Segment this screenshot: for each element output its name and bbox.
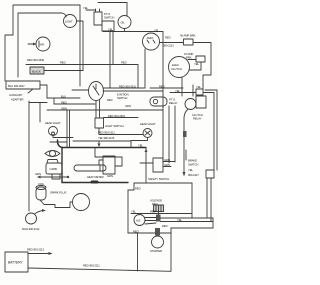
wire battery ground long (28, 268, 171, 271)
wire stub switch left (72, 89, 88, 91)
wire red 900-2530 run (26, 64, 113, 66)
wire reg stem (158, 212, 160, 216)
svg-text:RED 900-2611: RED 900-2611 (119, 85, 136, 89)
svg-text:900-2117: 900-2117 (188, 173, 199, 177)
svg-text:RED: RED (107, 98, 113, 102)
wire alt stub top (145, 217, 156, 219)
magneto arrow (35, 211, 44, 214)
brake arrow head (183, 172, 186, 177)
ammeter circle (143, 33, 160, 50)
head light left filament (52, 132, 55, 135)
reg blob (157, 215, 161, 220)
wire relay top (192, 85, 194, 96)
light switch box (95, 118, 104, 128)
svg-text:ALT.: ALT. (136, 219, 141, 223)
svg-text:RED: RED (159, 85, 165, 89)
wire from top loop down (79, 5, 81, 86)
wire safety drop (145, 148, 147, 184)
magneto circle (26, 213, 37, 224)
ignition switch body (89, 82, 104, 101)
wire light switch out (104, 117, 139, 119)
wire yel 2115 run (73, 141, 131, 148)
safety switch box (153, 158, 163, 172)
svg-text:YEL: YEL (194, 62, 199, 66)
svg-text:RED: RED (135, 187, 141, 191)
head light right stem (131, 138, 148, 141)
svg-text:RED 900-2111: RED 900-2111 (98, 131, 115, 135)
svg-text:40 AMP. BRK.: 40 AMP. BRK. (180, 34, 196, 38)
svg-text:BLACK: BLACK (32, 70, 41, 74)
right connector box (206, 170, 214, 178)
wire bus riser a (206, 178, 208, 218)
head light right filament (145, 131, 150, 135)
inner box right rail (191, 183, 193, 218)
svg-text:SPARK PLUG: SPARK PLUG (50, 191, 66, 195)
svg-text:RED: RED (133, 230, 139, 234)
wire left box corner (5, 35, 13, 81)
coil body (36, 187, 46, 200)
svg-text:YEL: YEL (83, 6, 88, 10)
pto relay pole (153, 99, 157, 103)
big box squiggle (57, 140, 62, 148)
svg-text:GRN: GRN (61, 107, 67, 111)
connector block black (30, 67, 44, 74)
battery pos arrow (49, 252, 53, 255)
clutch relay box (196, 96, 206, 108)
svg-text:YEL: YEL (108, 28, 113, 32)
wire top inner loop (18, 13, 66, 77)
light L1 lead (77, 21, 84, 71)
wire feed right outer (205, 90, 217, 170)
carb lower block (52, 174, 60, 179)
brake switch pointer (185, 150, 187, 160)
svg-text:RELAY: RELAY (193, 117, 202, 121)
connector block lead (44, 70, 83, 72)
svg-text:MAG 900-2112: MAG 900-2112 (22, 227, 40, 231)
ammeter marks (147, 40, 155, 43)
svg-text:AUXILIARY: AUXILIARY (9, 93, 23, 97)
arrow head drop (98, 144, 101, 148)
wire breaker down (189, 62, 201, 70)
carb thru wire (38, 176, 68, 178)
svg-text:COIL: COIL (38, 182, 45, 186)
wire red relay run (150, 87, 183, 89)
light circle L1 (64, 15, 77, 28)
inner box left jog (128, 183, 134, 190)
wire rail jog (203, 75, 211, 89)
wire reg bus (131, 213, 192, 215)
starter circle (152, 236, 164, 248)
coil top ellipse (36, 186, 46, 190)
hour gauge tick (38, 41, 40, 47)
head light left circle (49, 127, 58, 136)
alt splice blob (156, 215, 161, 222)
wire ignition feed b (103, 90, 163, 92)
pto switch feed (86, 9, 96, 11)
breaker 40amp box (184, 39, 194, 45)
wire relay legs b (174, 106, 176, 162)
hour meter box (103, 156, 115, 174)
wire blu (47, 97, 80, 99)
head light right circle (143, 129, 152, 138)
svg-text:SWITCH: SWITCH (104, 16, 114, 20)
ignition key slot (93, 84, 99, 95)
wire ignition feed a (103, 87, 145, 89)
battery box (5, 252, 28, 272)
ignition tabs (96, 100, 100, 118)
carb wire arrowhead (37, 176, 41, 179)
wire pair down b (69, 110, 71, 148)
head light left stem (53, 136, 73, 138)
wire bus corner (171, 218, 213, 228)
wire clutch relay drop (184, 109, 188, 174)
wire bus riser b (210, 178, 212, 222)
splice on box edge (92, 181, 97, 184)
oil stub (124, 29, 126, 32)
svg-text:ADAPTER: ADAPTER (11, 98, 23, 102)
wire red to ignition corner (113, 65, 138, 89)
wire rail pair b (112, 31, 114, 65)
wire headlight feed (99, 128, 143, 135)
svg-text:AMM.: AMM. (147, 36, 154, 40)
svg-text:YEL 900-2115: YEL 900-2115 (98, 136, 115, 140)
wire left light lower (50, 141, 67, 143)
inner box left rail (127, 190, 129, 233)
carb neck (47, 160, 58, 164)
svg-text:RELAY: RELAY (169, 101, 178, 105)
wire clutch bottom (181, 77, 183, 96)
wire bus a (161, 217, 214, 219)
svg-text:OIL: OIL (121, 21, 126, 25)
wire arrow drop (98, 141, 100, 145)
wire breaker to rail (193, 43, 211, 76)
svg-text:GRN: GRN (164, 163, 170, 167)
svg-text:BRK.: BRK. (186, 56, 192, 60)
wire red 2 (54, 103, 95, 105)
wire alt bottom (128, 232, 171, 234)
alternator circle (134, 215, 145, 226)
clutch feed box (196, 89, 203, 95)
svg-text:RED: RED (61, 101, 67, 105)
svg-text:YEL: YEL (196, 85, 201, 89)
hour gauge circle (36, 37, 50, 51)
big box heavy top (57, 140, 146, 183)
wire coil rail (28, 101, 30, 211)
carb wire dot (67, 176, 69, 178)
svg-text:BLU: BLU (61, 95, 66, 99)
svg-text:LIGHT: LIGHT (65, 20, 73, 24)
safety switch leads (163, 162, 175, 167)
svg-text:YEL: YEL (154, 29, 159, 33)
elec clutch circle (169, 57, 190, 78)
battery pos lead (28, 253, 50, 255)
wire relay legs a (168, 106, 170, 163)
svg-text:RED: RED (162, 224, 168, 228)
spark plug circle (73, 194, 90, 211)
svg-text:RED 900-2530: RED 900-2530 (27, 58, 45, 62)
starter splice (155, 228, 160, 236)
svg-text:RED: RED (165, 36, 171, 40)
svg-text:HEAT METER: HEAT METER (87, 175, 104, 179)
svg-text:SWITCH: SWITCH (117, 96, 127, 100)
label box blu 900-2527 (6, 81, 40, 89)
wire aux to bundle (40, 85, 47, 98)
svg-text:RED 900-2111: RED 900-2111 (83, 264, 100, 268)
svg-text:STARTER: STARTER (150, 249, 162, 253)
svg-text:GRN: GRN (125, 104, 131, 108)
pto lower block (102, 21, 114, 31)
wire top outer loop (13, 5, 80, 35)
eye light (45, 151, 60, 157)
svg-text:SWITCH: SWITCH (188, 163, 198, 167)
svg-text:BATTERY: BATTERY (8, 261, 23, 265)
eye light pupil (50, 151, 56, 157)
hour gauge arrow (28, 43, 35, 45)
svg-text:YEL: YEL (188, 168, 193, 172)
wire bundle bracket (53, 98, 55, 104)
inner box top (134, 182, 192, 184)
aux adapter arrow (28, 89, 33, 93)
svg-text:RED 900-2113: RED 900-2113 (27, 248, 44, 252)
safety drop arrowhead (145, 149, 148, 153)
pto switch box (94, 12, 102, 25)
starter box (138, 228, 172, 271)
svg-text:SAFETY SWITCH: SAFETY SWITCH (148, 177, 169, 181)
coil to plug steps (40, 200, 73, 208)
wire headlight drop (39, 103, 41, 123)
oil circle (118, 16, 131, 29)
splice blob (183, 131, 187, 137)
wire pair down a (66, 110, 68, 148)
wire alt stub mid (145, 220, 156, 222)
clutch relay circle (185, 99, 196, 110)
carb body (46, 163, 62, 174)
svg-text:RED: RED (60, 61, 66, 65)
wire rail pair a (109, 31, 111, 88)
svg-text:REG.: REG. (152, 202, 159, 206)
pto relay body (150, 97, 167, 106)
big box left (61, 148, 63, 183)
svg-text:RED: RED (150, 210, 156, 214)
svg-text:HEAD LIGHT: HEAD LIGHT (140, 122, 156, 126)
svg-text:YEL: YEL (175, 89, 180, 93)
svg-text:GRN: GRN (164, 158, 170, 162)
wire clutch to breaker (188, 59, 196, 61)
ammeter left lead (144, 49, 146, 88)
pto switch tabs (96, 9, 100, 12)
svg-text:LIGHT SWITCH: LIGHT SWITCH (105, 124, 124, 128)
svg-text:GRN: GRN (107, 174, 113, 178)
wire top jumper (98, 2, 127, 4)
wire hourmeter feed (95, 148, 122, 167)
svg-text:HR.: HR. (40, 43, 45, 47)
wire safety left (140, 162, 153, 164)
hour meter bar (74, 165, 106, 171)
wire alt stub low (145, 223, 156, 224)
voltage reg block (154, 205, 164, 212)
hour meter notch (99, 160, 104, 165)
svg-text:RED 900-2601: RED 900-2601 (108, 114, 126, 118)
breaker 15amp box (196, 56, 205, 62)
svg-text:900-2113: 900-2113 (163, 44, 174, 48)
wire right rail mid (162, 32, 164, 164)
wire grn (47, 109, 163, 111)
svg-text:BLU 900-2527: BLU 900-2527 (8, 84, 25, 88)
svg-text:YEL: YEL (177, 218, 182, 222)
svg-text:HEAD LIGHT: HEAD LIGHT (45, 121, 61, 125)
wire oil drop (126, 3, 128, 17)
svg-text:RED: RED (121, 61, 127, 65)
wire yel main top (103, 31, 163, 33)
wire bus b (161, 221, 214, 223)
wire feed right (203, 93, 214, 171)
big box bottom (62, 182, 128, 184)
svg-text:CARB.: CARB. (50, 167, 58, 171)
svg-text:YEL: YEL (138, 144, 143, 148)
voltage reg hatch (156, 205, 161, 212)
wire adapter link (29, 102, 47, 104)
wire clutch feed (170, 92, 196, 94)
hour meter tick (99, 165, 101, 171)
svg-text:GRN: GRN (35, 172, 41, 176)
svg-text:YEL: YEL (131, 210, 136, 214)
svg-text:CLUTCH: CLUTCH (171, 67, 182, 71)
ammeter right lead (160, 42, 184, 44)
